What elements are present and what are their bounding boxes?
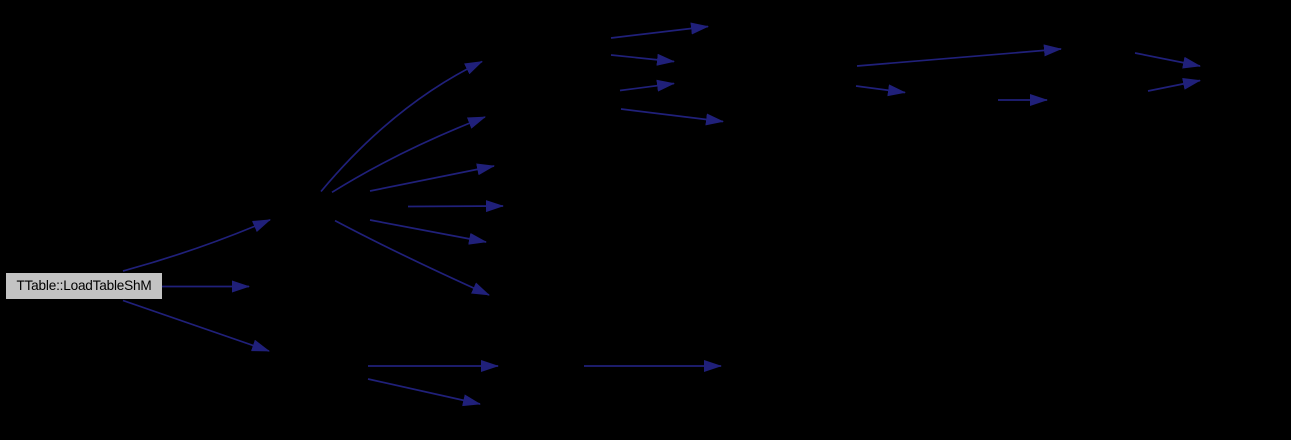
wire edge E10 (611, 27, 708, 39)
svg-text:TTable::LoadTableShM: TTable::LoadTableShM (16, 278, 151, 293)
wire edge E7 hub to target 4 (408, 205, 503, 208)
wire edge E1 box to hub node (123, 220, 270, 271)
wire edge E21 (584, 365, 721, 367)
wire edge E20 (368, 379, 480, 404)
wire edge E13 (621, 109, 723, 122)
wire edge E19 (368, 365, 498, 367)
wire edge E9 hub to target 6 (335, 221, 489, 295)
wire edge E16 (998, 99, 1047, 101)
wire edge E15 (856, 86, 905, 93)
node TTable::LoadTableShM (6, 273, 162, 299)
wire edge E5 hub to target 2 (332, 117, 485, 192)
wire edge E8 hub to target 5 (370, 220, 486, 242)
wire edge E17 (1135, 53, 1200, 66)
wire edge E6 hub to target 3 (370, 166, 494, 191)
wire edge E3 box to bottom node (123, 301, 269, 352)
wire edge E14 (857, 49, 1061, 66)
wire edge E11 (611, 55, 674, 62)
wire edge E2 box to middle node (162, 286, 249, 288)
wire edge E4 hub to target 1 (curved) (321, 62, 482, 192)
wire edge E18 (1148, 81, 1200, 92)
wire edge E12 (620, 84, 674, 91)
